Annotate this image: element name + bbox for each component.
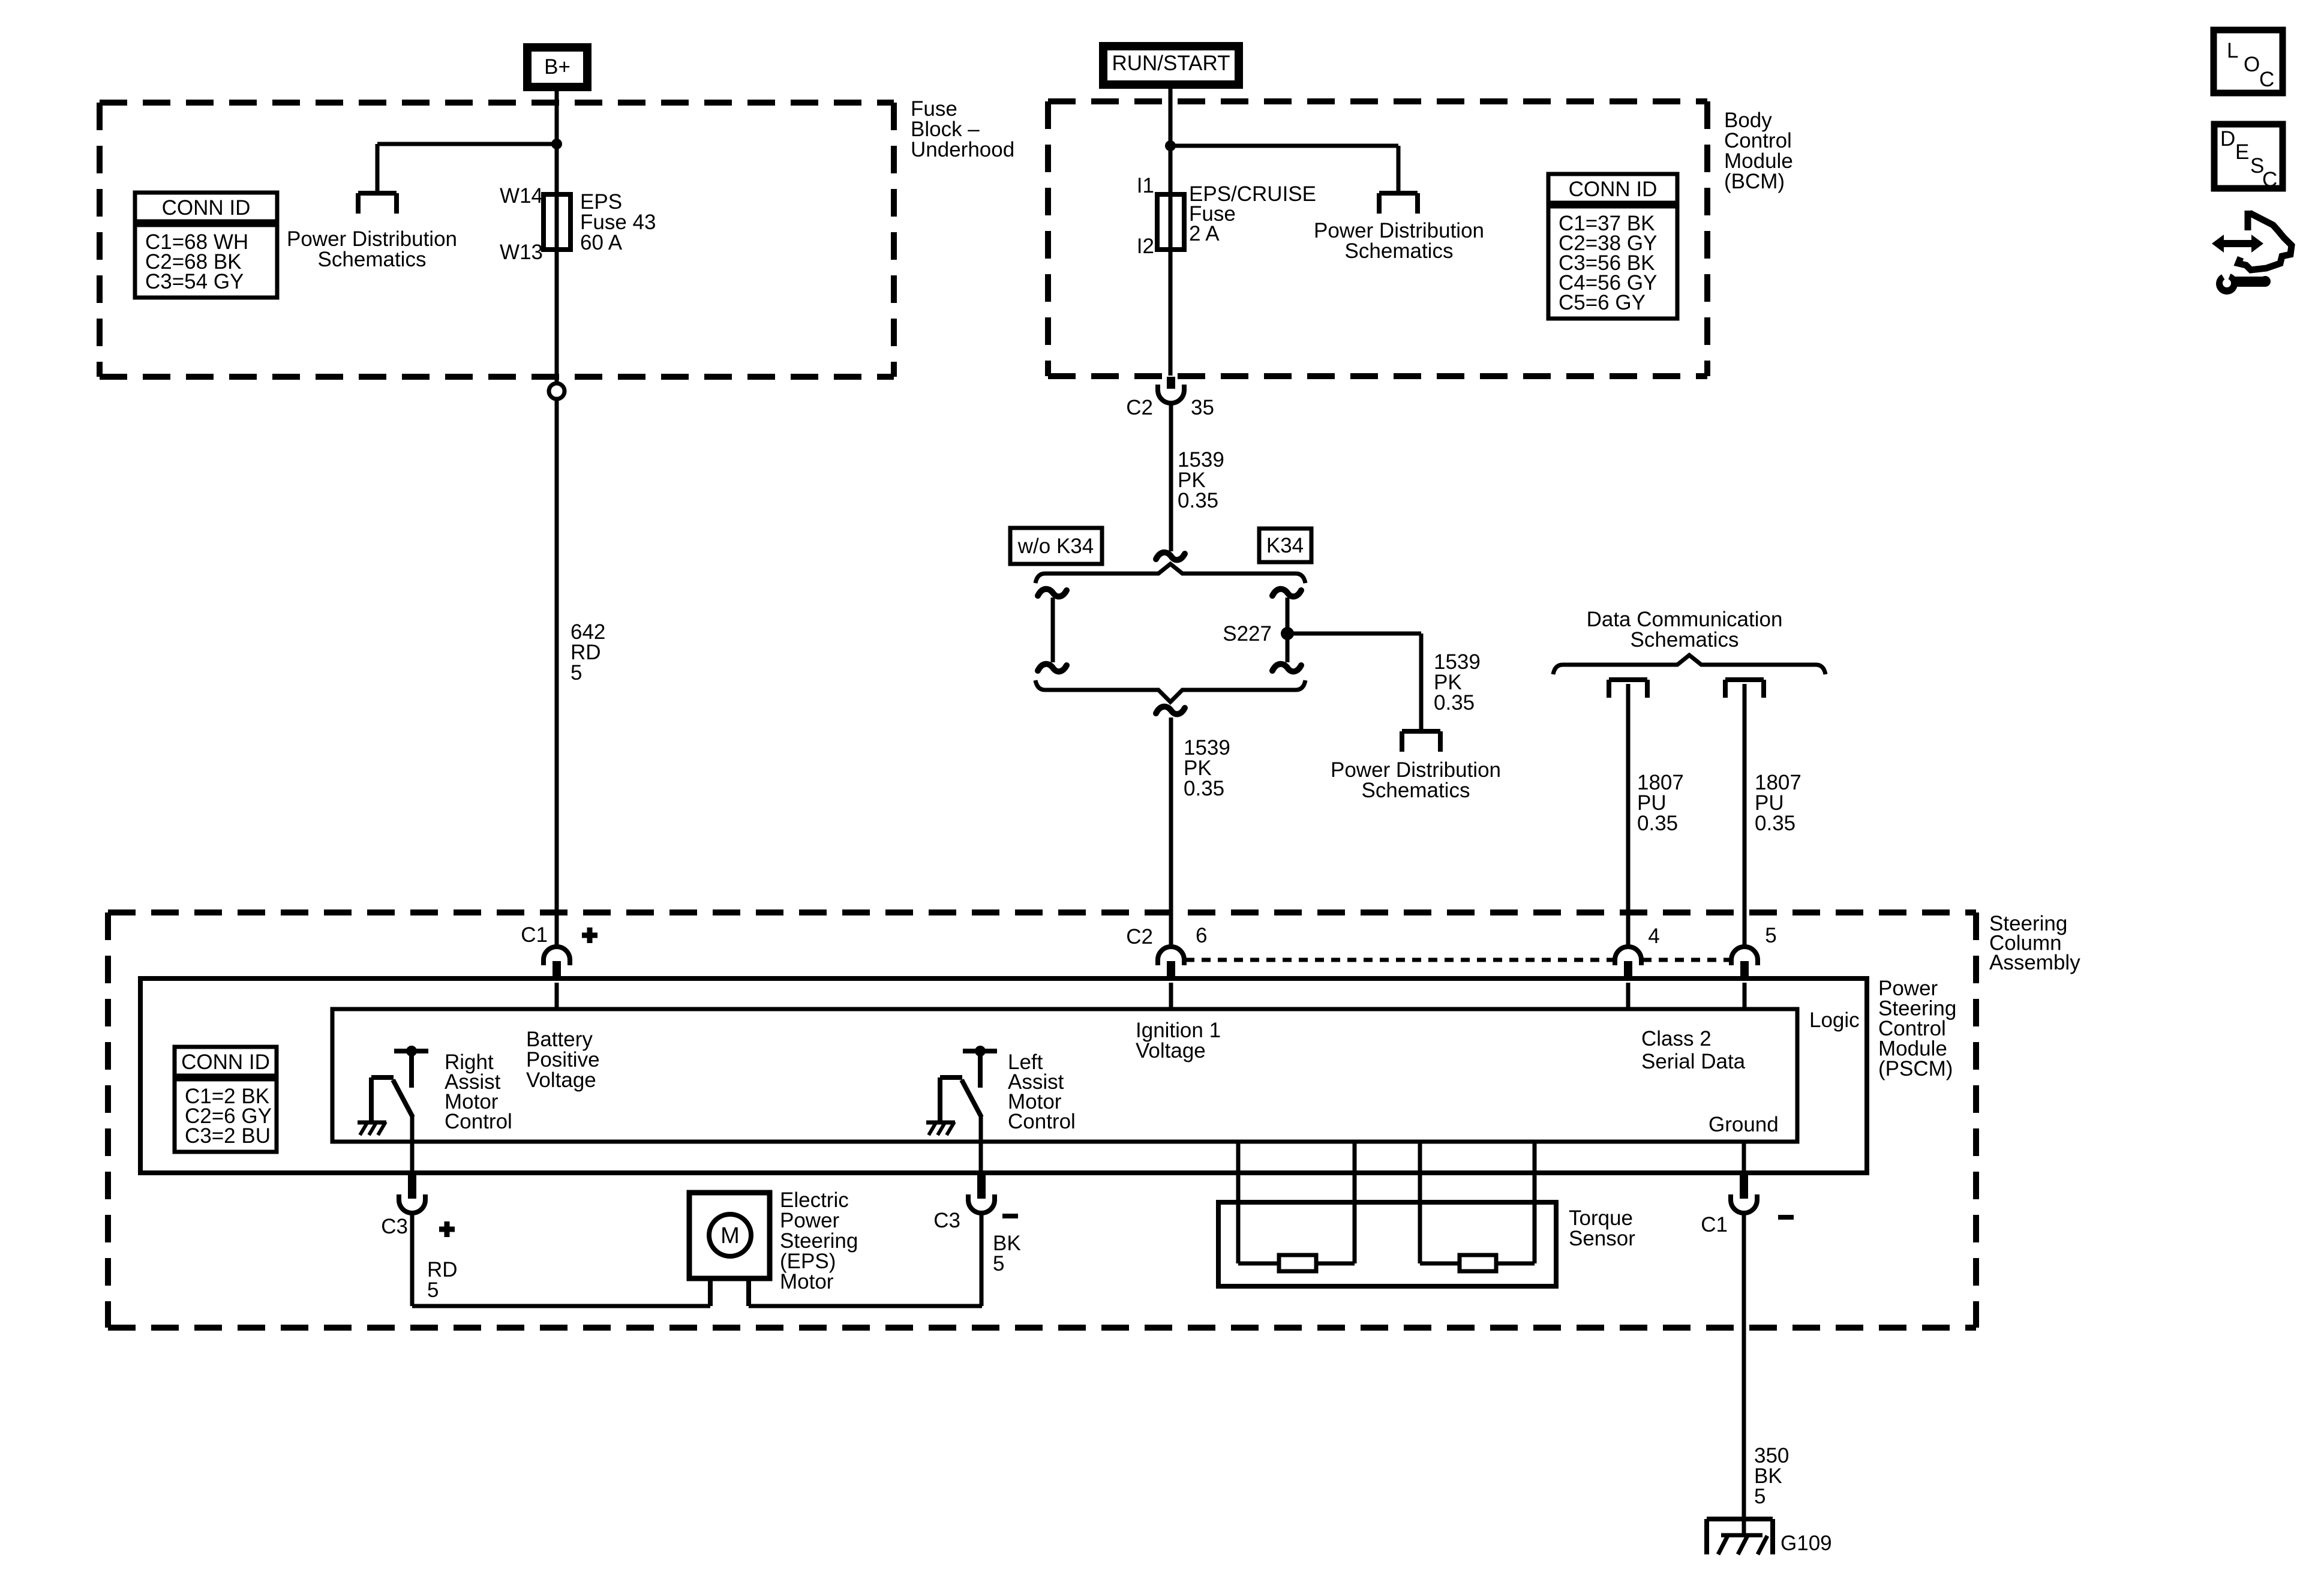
svg-text:0.35: 0.35 [1755,812,1795,835]
svg-text:(BCM): (BCM) [1724,170,1785,193]
svg-text:5: 5 [993,1252,1004,1275]
svg-text:I1: I1 [1137,174,1154,197]
svg-text:C3=2 BU: C3=2 BU [185,1124,271,1148]
svg-text:G109: G109 [1780,1532,1832,1555]
svg-text:L: L [2227,39,2238,62]
svg-text:Motor: Motor [780,1270,834,1293]
svg-text:O: O [2244,53,2260,76]
svg-text:5: 5 [1754,1485,1765,1508]
svg-text:D: D [2220,127,2235,151]
svg-text:CONN ID: CONN ID [181,1050,270,1074]
svg-text:Voltage: Voltage [1136,1039,1206,1062]
svg-text:C5=6 GY: C5=6 GY [1559,291,1646,314]
svg-text:5: 5 [427,1278,439,1302]
svg-text:C2: C2 [1126,925,1153,948]
svg-text:0.35: 0.35 [1184,777,1224,800]
svg-text:60 A: 60 A [580,231,623,254]
svg-text:S227: S227 [1223,622,1272,646]
svg-text:Assembly: Assembly [1989,951,2080,974]
svg-text:Voltage: Voltage [526,1068,596,1092]
svg-text:RUN/START: RUN/START [1112,52,1230,75]
svg-text:Sensor: Sensor [1569,1227,1635,1250]
svg-text:(PSCM): (PSCM) [1878,1057,1953,1080]
svg-text:Control: Control [1008,1110,1076,1133]
svg-text:0.35: 0.35 [1434,691,1475,715]
svg-text:w/o K34: w/o K34 [1017,535,1094,558]
svg-text:C: C [2262,168,2277,191]
svg-text:Ground: Ground [1709,1113,1779,1136]
svg-text:M: M [720,1223,740,1248]
svg-text:Schematics: Schematics [1631,628,1739,652]
svg-text:35: 35 [1191,396,1214,419]
svg-text:B+: B+ [544,55,571,79]
svg-text:C3: C3 [381,1215,408,1238]
svg-text:W13: W13 [500,241,543,264]
svg-text:Underhood: Underhood [911,138,1014,161]
svg-text:W14: W14 [500,184,543,208]
svg-text:2 A: 2 A [1189,222,1220,245]
svg-text:6: 6 [1196,924,1207,947]
svg-text:C3=54 GY: C3=54 GY [145,270,244,293]
svg-text:C1: C1 [521,923,548,947]
svg-text:CONN ID: CONN ID [162,196,251,220]
svg-text:CONN ID: CONN ID [1569,178,1658,201]
svg-text:Logic: Logic [1809,1008,1860,1032]
svg-text:0.35: 0.35 [1178,489,1218,512]
svg-text:0.35: 0.35 [1637,812,1678,835]
svg-text:I2: I2 [1137,235,1154,258]
svg-text:Class 2: Class 2 [1641,1027,1712,1050]
svg-text:C2: C2 [1126,396,1153,419]
svg-text:Schematics: Schematics [318,248,427,271]
svg-text:5: 5 [1765,924,1776,947]
svg-text:E: E [2235,140,2249,164]
svg-text:C1: C1 [1701,1213,1728,1236]
svg-text:4: 4 [1648,924,1659,948]
svg-text:Schematics: Schematics [1362,779,1470,802]
svg-text:5: 5 [571,661,582,685]
svg-text:C3: C3 [933,1209,960,1232]
svg-text:Serial Data: Serial Data [1641,1050,1746,1073]
svg-text:K34: K34 [1266,534,1304,557]
svg-text:Schematics: Schematics [1345,239,1454,263]
svg-text:Control: Control [445,1110,512,1133]
svg-text:C: C [2259,68,2274,91]
